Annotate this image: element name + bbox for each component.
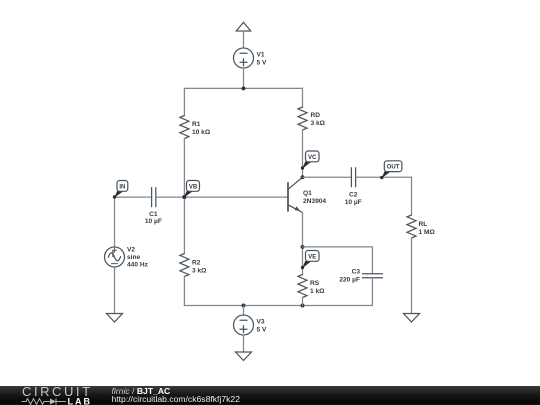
wire RL bottom lead (411, 238, 413, 314)
svg-text:C2: C2 (349, 192, 358, 199)
node label VC (301, 151, 319, 170)
node label IN (113, 181, 128, 199)
junction dot collector (301, 175, 305, 179)
wire emitter vertical (302, 213, 304, 275)
wire R1 bottom lead (183, 139, 185, 198)
svg-text:VE: VE (308, 254, 316, 260)
svg-text:3 kΩ: 3 kΩ (311, 120, 326, 127)
wire C2 to RL corner (356, 176, 412, 178)
svg-text:R2: R2 (192, 260, 201, 267)
wire C1 to Q1 base (156, 196, 288, 198)
capacitor C3 (362, 274, 382, 278)
transistor Q1 (288, 177, 303, 212)
wire collector to C2 (303, 176, 352, 178)
node label VB (182, 181, 199, 199)
svg-text:C1: C1 (149, 211, 158, 218)
svg-text:IN: IN (119, 184, 125, 190)
CircuitLab logo (0, 386, 110, 405)
wire V2 bottom lead (114, 267, 116, 314)
svg-text:R1: R1 (192, 121, 201, 128)
capacitor C1 (152, 188, 156, 207)
voltage source V3 (234, 315, 254, 335)
voltage source V1 (234, 48, 254, 68)
junction dot VB (182, 195, 186, 199)
svg-text:10 µF: 10 µF (345, 199, 362, 206)
wire V3 to ground (243, 335, 245, 352)
node label OUT (380, 161, 402, 179)
svg-text:Q1: Q1 (303, 190, 312, 197)
svg-text:2N3904: 2N3904 (303, 198, 326, 205)
wire power flag to V1 (243, 31, 245, 48)
svg-text:10 µF: 10 µF (145, 218, 162, 225)
wire bottom rail (184, 305, 372, 307)
svg-text:RD: RD (311, 112, 321, 119)
resistor R2 (180, 254, 189, 277)
capacitor C2 (351, 168, 355, 187)
power flag V+ (236, 22, 250, 31)
wire RL top lead (411, 177, 413, 215)
svg-text:5 V: 5 V (257, 60, 267, 67)
wire RS bottom lead (302, 298, 304, 306)
wire R2 top lead (183, 197, 185, 253)
svg-text:1 MΩ: 1 MΩ (419, 229, 436, 236)
wire C3 bottom lead (371, 278, 373, 306)
voltage source V2 (sine) (105, 247, 125, 267)
wire RD top lead (302, 88, 304, 107)
footer bar (0, 386, 540, 405)
svg-text:C3: C3 (352, 269, 361, 276)
svg-text:V3: V3 (257, 319, 265, 326)
resistor RS (298, 275, 307, 298)
svg-text:5 V: 5 V (257, 327, 267, 334)
wire RD bottom lead (302, 130, 304, 177)
wire top rail (184, 87, 302, 89)
resistor R1 (180, 116, 189, 139)
svg-text:sine: sine (127, 254, 141, 261)
node label VE (301, 251, 319, 270)
ground under RL (404, 314, 420, 323)
junction dot bottom rail / RS (301, 304, 305, 308)
svg-text:VC: VC (308, 155, 317, 161)
svg-text:RL: RL (419, 221, 428, 228)
junction dot top rail / V1 (242, 86, 246, 90)
ground under V2 (107, 314, 123, 323)
svg-text:LAB: LAB (68, 396, 93, 405)
wire emitter to C3 (303, 246, 373, 248)
wire V3 top lead (243, 306, 245, 316)
svg-text:440 Hz: 440 Hz (127, 262, 149, 269)
svg-text:V1: V1 (257, 52, 265, 59)
svg-text:3 kΩ: 3 kΩ (192, 268, 207, 275)
wire V2 top lead (114, 197, 116, 247)
footer text (112, 387, 240, 405)
svg-text:OUT: OUT (387, 165, 400, 171)
svg-text:V2: V2 (127, 247, 135, 254)
junction dot bottom rail / V3 (242, 304, 246, 308)
wire IN to C1 (115, 196, 152, 198)
ground under V3 (236, 352, 252, 361)
wire R1 top lead (183, 88, 185, 115)
wire R2 bottom lead (183, 277, 185, 306)
svg-text:VB: VB (189, 184, 198, 190)
svg-text:1 kΩ: 1 kΩ (310, 288, 325, 295)
resistor RD (298, 107, 307, 130)
resistor RL (407, 215, 416, 238)
svg-text:RS: RS (310, 280, 320, 287)
svg-text:220 µF: 220 µF (339, 277, 360, 284)
wire V1 to top rail (243, 68, 245, 88)
wire C3 top lead (371, 247, 373, 274)
junction dot emitter (301, 245, 305, 249)
svg-text:10 kΩ: 10 kΩ (192, 129, 211, 136)
